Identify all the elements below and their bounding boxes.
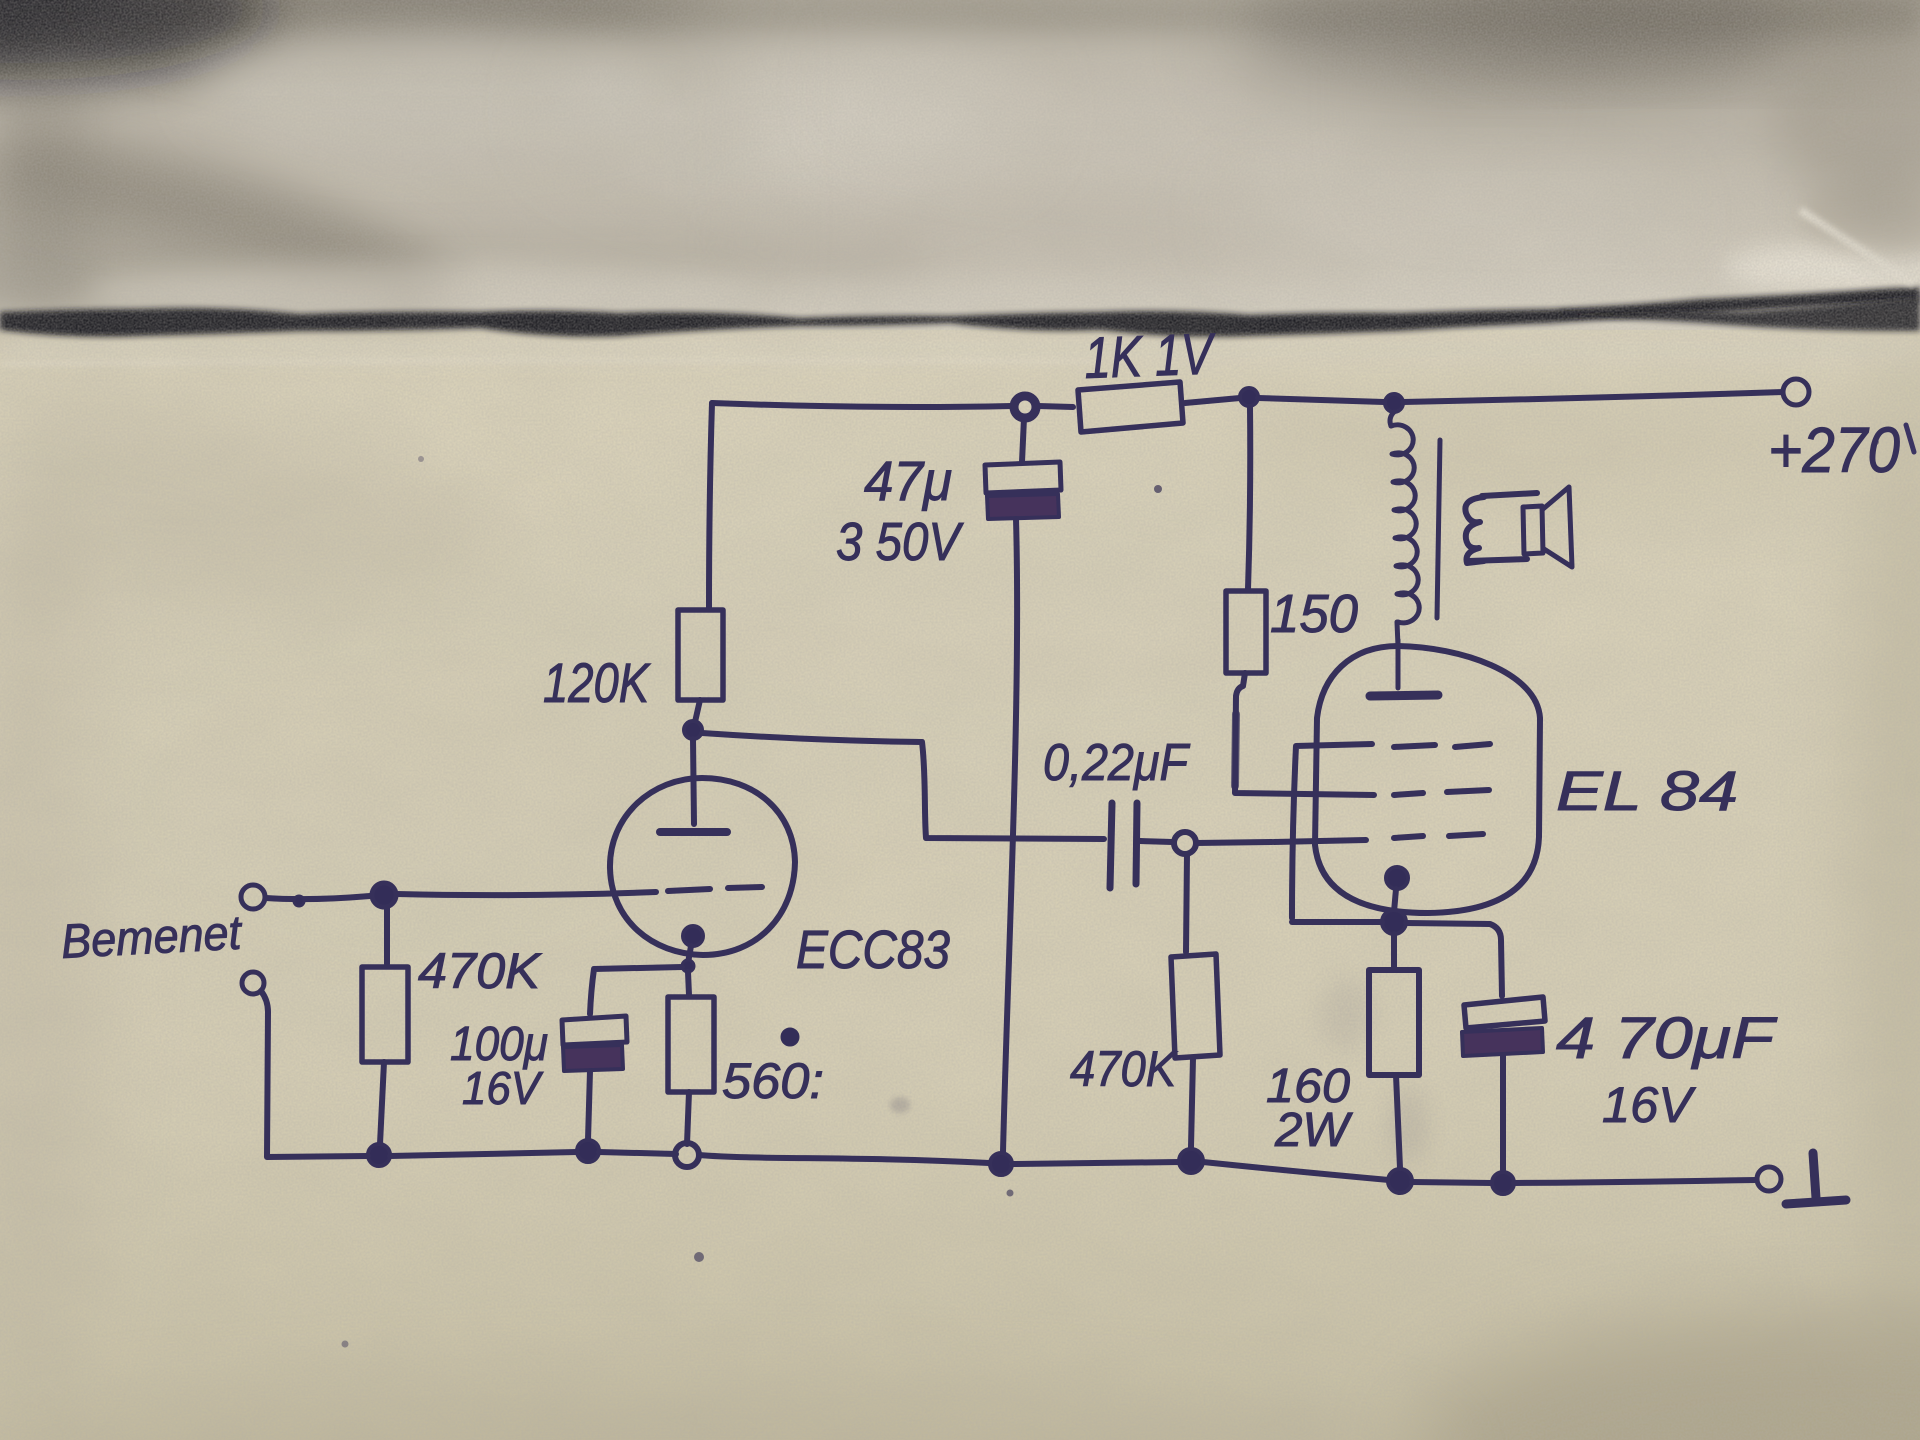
svg-text:560:: 560: bbox=[722, 1053, 824, 1109]
resistor 1K 1V body bbox=[1078, 382, 1183, 432]
capacitor 100u bottom plate (filled) bbox=[563, 1045, 623, 1071]
grid dashes ECC83 bbox=[668, 889, 710, 891]
ink dot near 560 bbox=[781, 1028, 799, 1046]
lower sheet shading bbox=[0, 330, 1920, 1440]
node 560/rail bbox=[675, 1143, 699, 1167]
capacitor 47u top plate bbox=[985, 462, 1061, 493]
lifted corner diagonal crease bbox=[1800, 210, 1914, 284]
cathode bus left/right bbox=[1292, 919, 1382, 925]
svg-text:Bemenet: Bemenet bbox=[60, 907, 244, 969]
svg-text:470K: 470K bbox=[1070, 1041, 1178, 1097]
node 100u/rail bbox=[577, 1140, 599, 1162]
wire: 470K to rail bbox=[380, 1062, 384, 1144]
tube ECC83 envelope bbox=[610, 778, 795, 955]
wire: cathode to 100u (left branch) bbox=[590, 967, 682, 1014]
capacitor 100u top plate bbox=[562, 1016, 627, 1045]
wire: node G down to 160 bbox=[1391, 934, 1397, 968]
EL84 g1 row bbox=[1274, 840, 1366, 842]
resistor 150 body bbox=[1226, 591, 1266, 673]
speaker box bbox=[1482, 493, 1537, 496]
wire: 100u to ground rail bbox=[588, 1071, 590, 1140]
node input/470K bbox=[372, 883, 396, 907]
capacitor 47u bottom plate (filled) bbox=[987, 494, 1059, 519]
wire: input to node E bbox=[266, 896, 370, 899]
faint crease under fold bbox=[0, 358, 1100, 366]
transformer primary coil bbox=[1390, 412, 1394, 426]
wire: 120K bottom to node D bbox=[695, 700, 700, 722]
ink blob on input wire bbox=[294, 896, 304, 906]
svg-text:4 70μF: 4 70μF bbox=[1556, 1006, 1778, 1071]
ground symbol bbox=[1813, 1153, 1816, 1198]
speaker cone bbox=[1543, 487, 1572, 567]
capacitor 470uF bottom plate (filled) bbox=[1462, 1028, 1543, 1056]
resistor 120K body bbox=[678, 610, 723, 700]
coupling cap 0.22uF right plate bbox=[1136, 803, 1137, 884]
wire: node F down to 470K right bbox=[1186, 854, 1187, 952]
node A top of 47u bbox=[1014, 396, 1036, 418]
wire: cathode to 560 bbox=[688, 972, 689, 995]
resistor 470K body bbox=[362, 967, 408, 1062]
svg-text:16V: 16V bbox=[462, 1062, 544, 1114]
node 160/rail bbox=[1388, 1169, 1412, 1193]
wire: node down to 470K bbox=[384, 907, 390, 964]
node F (grid node) bbox=[1174, 832, 1196, 854]
upper sheet shading blobs bbox=[0, 0, 1920, 322]
node B bbox=[1240, 388, 1258, 406]
svg-text:47μ: 47μ bbox=[864, 449, 952, 512]
wire: 470uF to rail bbox=[1500, 1056, 1506, 1170]
resistor 160 body bbox=[1369, 970, 1419, 1075]
svg-text:EL 84: EL 84 bbox=[1556, 759, 1738, 822]
input terminal lower bbox=[242, 972, 264, 994]
anode plate ECC83 bbox=[660, 828, 727, 836]
node mid-rail (47u drop) bbox=[990, 1153, 1012, 1175]
EL84 g3 row + tie to cathode bbox=[1292, 744, 1372, 918]
svg-text:0,22μF: 0,22μF bbox=[1043, 734, 1191, 792]
wire: top rail down to 120K bbox=[709, 403, 712, 608]
ground rail left-to-right bbox=[390, 1152, 577, 1156]
svg-text:3 50V: 3 50V bbox=[836, 512, 964, 572]
svg-text:2W: 2W bbox=[1274, 1104, 1354, 1157]
coupling cap 0.22uF left plate bbox=[1110, 803, 1112, 888]
wire: cathode down to node G bbox=[1394, 889, 1396, 912]
wire: 560 to rail bbox=[687, 1092, 689, 1144]
wire: node B down to 150 bbox=[1248, 407, 1250, 589]
resistor 470K right body bbox=[1171, 954, 1220, 1058]
speaker secondary bumps bbox=[1465, 497, 1484, 563]
wire: node F to EL84 g1 row bbox=[1196, 842, 1272, 843]
node cathode junction bbox=[682, 960, 694, 972]
fold gap (dark crease) bbox=[0, 287, 1920, 337]
wire: 1K right lead to node B bbox=[1185, 398, 1240, 403]
node 470K(right)/rail bbox=[1179, 1149, 1203, 1173]
wire: 47u down to rail bbox=[1003, 519, 1017, 1152]
speaker driver rect bbox=[1523, 506, 1543, 554]
svg-text:1K 1V: 1K 1V bbox=[1083, 321, 1217, 391]
label V stub of +270V cut at edge bbox=[1906, 425, 1914, 452]
EL84 g2 dashes bbox=[1394, 793, 1423, 795]
EL84 cathode dot bbox=[1386, 867, 1408, 889]
EL84 anode lead bbox=[1396, 640, 1401, 688]
terminal +270 bbox=[1783, 379, 1809, 405]
node 470K/rail bbox=[368, 1144, 390, 1166]
resistor 560 body bbox=[668, 997, 714, 1092]
capacitor 470uF top plate bbox=[1464, 997, 1545, 1028]
svg-text:150: 150 bbox=[1270, 584, 1358, 644]
paper specks and smudges bbox=[342, 439, 1880, 1348]
wire: cap right to node F bbox=[1140, 841, 1172, 842]
transformer core line bbox=[1437, 440, 1440, 618]
node G cathode junction bbox=[1382, 910, 1406, 934]
EL84 anode plate bbox=[1370, 695, 1438, 696]
paper background upper sheet bbox=[0, 0, 1920, 330]
node D (anode junction) bbox=[684, 721, 702, 739]
right-end dark wedge of fold bbox=[1560, 297, 1920, 331]
wire: cathode tail bbox=[688, 946, 691, 963]
svg-text:16V: 16V bbox=[1602, 1077, 1697, 1133]
svg-text:+270: +270 bbox=[1768, 414, 1900, 486]
wire: 160 to rail bbox=[1396, 1075, 1400, 1168]
wire: 150 down, jog, to EL84 screen row bbox=[1235, 673, 1374, 795]
wire: thick inked segment of screen feed bbox=[1235, 714, 1236, 786]
ground terminal bbox=[1757, 1167, 1781, 1191]
wire: lower input down and to rail corner bbox=[261, 991, 368, 1157]
wire: node D right, down, to coupling cap bbox=[702, 733, 1104, 839]
wire: 470K right to rail bbox=[1191, 1058, 1193, 1147]
wire: node A to 1K left lead bbox=[1038, 406, 1073, 407]
cathode dot ECC83 bbox=[683, 926, 703, 946]
wire: node C to +270 terminal bbox=[1403, 392, 1782, 402]
input terminal upper bbox=[241, 885, 265, 909]
wire: top rail left segment bbox=[712, 403, 1012, 407]
wire: node B to node C bbox=[1258, 398, 1384, 402]
node 470uF/rail bbox=[1492, 1172, 1514, 1194]
svg-text:470K: 470K bbox=[418, 943, 543, 999]
node C (transformer tap) bbox=[1385, 394, 1403, 412]
svg-text:120K: 120K bbox=[543, 651, 651, 714]
wire: node to ECC83 grid bbox=[397, 892, 656, 895]
wire: node D to ECC83 anode bbox=[693, 739, 694, 824]
wire: node A down to 47u bbox=[1022, 418, 1024, 462]
svg-text:ECC83: ECC83 bbox=[796, 920, 950, 980]
tube EL84 envelope bbox=[1315, 646, 1540, 913]
